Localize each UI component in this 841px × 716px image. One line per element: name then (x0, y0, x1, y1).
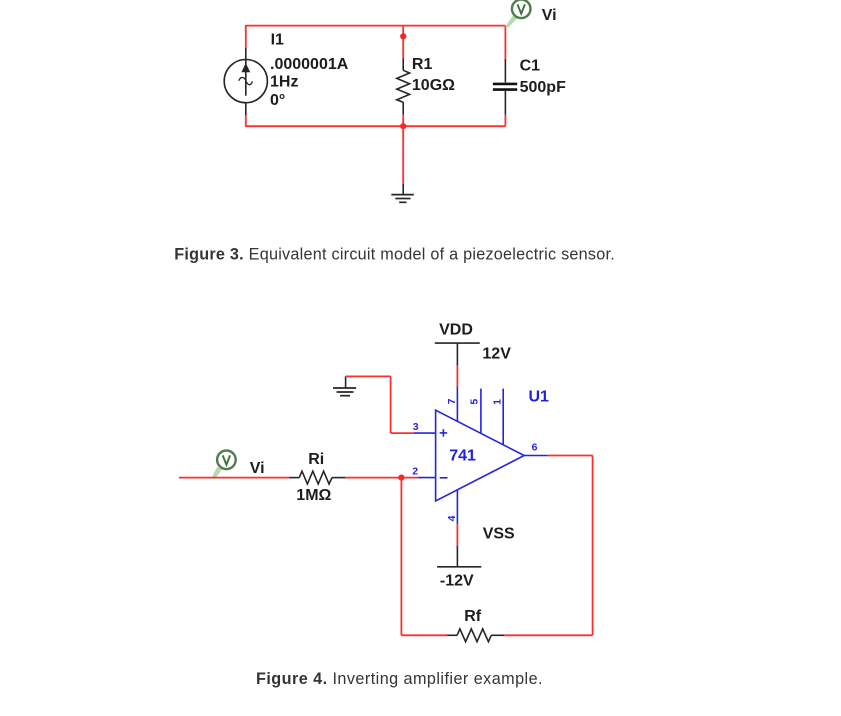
junction dot top of R1 (400, 33, 406, 39)
svg-text:3: 3 (413, 421, 419, 433)
svg-text:U1: U1 (529, 389, 550, 406)
wire pin 4 to VSS (red) (456, 524, 458, 545)
resistor Rf (447, 629, 504, 642)
wire left edge bottom segment (245, 115, 247, 127)
svg-text:5: 5 (469, 399, 481, 405)
C1 labels (520, 58, 566, 96)
junction dot inverting node (398, 475, 404, 481)
wire C1 top stub (504, 26, 506, 59)
pin 2 lead (418, 477, 436, 479)
svg-text:Figure 4. Inverting amplifier: Figure 4. Inverting amplifier example. (256, 670, 543, 688)
svg-text:1Hz: 1Hz (270, 74, 298, 91)
junction dot bottom of R1 (400, 123, 406, 129)
svg-text:VSS: VSS (483, 525, 515, 542)
VSS power symbol (437, 546, 481, 567)
svg-text:7: 7 (446, 398, 458, 404)
wire feedback bottom left segment (401, 634, 447, 636)
svg-text:6: 6 (532, 442, 538, 454)
pin 7 lead (456, 387, 458, 422)
svg-text:10GΩ: 10GΩ (412, 77, 455, 94)
I1 value labels (270, 32, 349, 109)
svg-text:Ri: Ri (308, 451, 324, 468)
VDD power symbol (435, 343, 480, 366)
wire left edge top segment (245, 25, 247, 48)
svg-text:R1: R1 (412, 56, 433, 73)
pin 3 lead (414, 432, 436, 434)
pin 5 lead (480, 389, 482, 434)
R1 labels (412, 56, 455, 94)
capacitor C1 (493, 59, 517, 115)
wire into pin3 (horizontal) (391, 432, 414, 434)
wire C1 bottom stub (504, 115, 506, 126)
svg-text:1: 1 (492, 399, 504, 405)
resistor R1 (397, 59, 410, 115)
wire ground drop (vertical) (390, 376, 392, 433)
pin 4 lead (456, 490, 458, 525)
svg-text:1MΩ: 1MΩ (296, 487, 331, 504)
current source I1 (224, 48, 267, 115)
svg-text:12V: 12V (482, 345, 511, 362)
wire feedback bottom right segment (504, 634, 592, 636)
wire ground stem (402, 126, 404, 184)
svg-text:Vi: Vi (542, 7, 557, 24)
svg-text:Figure 3. Equivalent circuit m: Figure 3. Equivalent circuit model of a … (174, 246, 615, 264)
svg-text:741: 741 (449, 448, 476, 465)
wire feedback left vertical (400, 478, 402, 636)
svg-text:VDD: VDD (439, 321, 473, 338)
wire input left segment (179, 477, 289, 479)
ground (figure 4) (333, 376, 356, 395)
resistor Ri (289, 471, 346, 484)
svg-text:0°: 0° (270, 92, 285, 109)
wire Ri to node (red) (345, 477, 401, 479)
svg-text:I1: I1 (271, 32, 284, 49)
svg-text:Vi: Vi (250, 460, 265, 477)
op-amp U1 741 triangle (436, 410, 525, 501)
svg-text:4: 4 (446, 515, 458, 521)
wire R1 bottom stub (402, 115, 404, 126)
wire ground to pin3 (horizontal top) (346, 375, 391, 377)
wire node to pin 2 (red) (401, 477, 418, 479)
probe V (figure 4) (211, 451, 236, 480)
pin 6 lead (524, 455, 547, 457)
wire R1 top stub (402, 26, 404, 59)
svg-text:2: 2 (412, 465, 418, 477)
wire bottom rail (246, 125, 506, 127)
svg-text:-12V: -12V (440, 573, 474, 590)
wire output right segment (548, 455, 593, 457)
svg-text:Rf: Rf (464, 608, 482, 625)
probe V (figure 3) (505, 0, 530, 28)
pin 1 lead (502, 389, 504, 445)
wire feedback right vertical (592, 456, 594, 636)
op-amp minus input mark (440, 477, 448, 479)
svg-text:500pF: 500pF (520, 79, 566, 96)
wire top rail (node Vi net) (246, 25, 506, 27)
svg-text:C1: C1 (520, 58, 541, 75)
op-amp plus input mark (440, 429, 447, 436)
wire VDD to pin 7 (red) (456, 366, 458, 387)
ground (figure 3) (391, 184, 414, 202)
svg-text:.0000001A: .0000001A (270, 56, 349, 73)
